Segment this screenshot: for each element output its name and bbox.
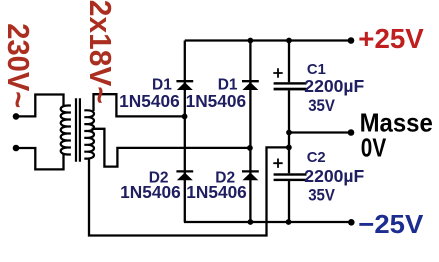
svg-text:C2: C2 (307, 150, 326, 166)
wire secondary bottom end to node 0V (89, 147, 289, 235)
wire diode column 1 (184, 41, 186, 223)
svg-text:35V: 35V (308, 97, 335, 115)
svg-text:230V~: 230V~ (1, 23, 35, 108)
terminal primary bottom (13, 145, 20, 152)
svg-text:1N5406: 1N5406 (186, 182, 247, 202)
diode D1 b (242, 81, 259, 90)
wire secondary center tap to node B (92, 129, 250, 167)
capacitor C1 plus sign (273, 68, 282, 77)
svg-text:0V: 0V (361, 132, 387, 162)
terminal +25V (348, 37, 355, 44)
transformer TR secondary coil (84, 110, 94, 158)
junction +rail col2 (248, 38, 254, 44)
terminal -25V (348, 219, 355, 226)
wire 0V rail (289, 131, 351, 133)
diode D2 b (242, 171, 259, 180)
junction node A (col1 / top tap) (182, 114, 188, 120)
capacitor C2 plates (274, 173, 307, 181)
svg-text:+25V: +25V (358, 23, 424, 54)
terminal primary top (13, 113, 20, 120)
terminal Masse (348, 129, 355, 136)
wire primary top lead (16, 95, 64, 117)
svg-text:1N5406: 1N5406 (186, 91, 247, 111)
capacitor C2 plus sign (273, 159, 282, 168)
transformer TR primary coil (61, 106, 71, 155)
wire secondary top tap to node A (94, 94, 185, 116)
junction -rail cap (286, 219, 292, 225)
capacitor C1 plates (274, 82, 307, 90)
svg-text:2x18V~: 2x18V~ (83, 0, 118, 104)
svg-text:2200µF: 2200µF (304, 76, 364, 96)
wire +25V rail (185, 39, 351, 41)
junction node B (col2 / center tap) (247, 145, 253, 151)
svg-text:1N5406: 1N5406 (120, 182, 181, 202)
wire -25V rail (184, 221, 351, 223)
svg-text:2200µF: 2200µF (304, 166, 364, 186)
junction node 0V mid (286, 145, 292, 151)
wire primary bottom lead (16, 148, 64, 169)
junction -rail col2 (248, 219, 254, 225)
wire capacitor column (288, 41, 290, 223)
transformer core (76, 98, 80, 162)
svg-text:1N5406: 1N5406 (119, 91, 180, 111)
junction +rail cap (286, 38, 292, 44)
svg-text:−25V: −25V (358, 209, 424, 239)
svg-text:35V: 35V (308, 187, 335, 205)
junction 0V rail (286, 130, 292, 136)
diode D1 a (176, 81, 193, 90)
wire diode column 2 (249, 41, 251, 223)
diode D2 a (176, 171, 193, 180)
